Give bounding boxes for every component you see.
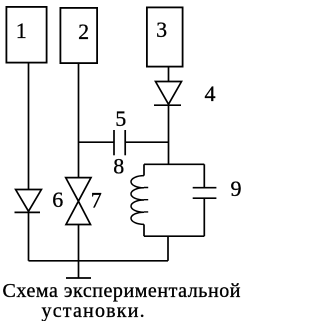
wire from block 1 down to diode 6 [28,63,30,190]
tank bottom wire to bus [167,236,169,261]
capacitor C5/C8 right plate [124,130,126,155]
svg-text:9: 9 [231,176,242,201]
block 1 [6,7,46,63]
diode V6 triangle [16,190,42,212]
capacitor C5/C8 left wire [79,141,115,143]
wire spark gap to ground [78,225,80,279]
block 2 [60,8,97,63]
caption line 1 [3,280,242,303]
ground bar [66,277,91,279]
caption line 2 [42,300,146,321]
svg-text:1: 1 [16,18,27,43]
svg-text:7: 7 [91,187,102,212]
svg-text:4: 4 [205,81,216,106]
spark gap F7 top triangle [66,178,91,202]
capacitor C9 top plate [193,187,217,189]
tank left edge lower stub [143,224,145,236]
svg-text:3: 3 [156,17,167,42]
capacitor C9 bottom plate [193,197,217,199]
capacitor C5/C8 right wire [125,141,168,143]
svg-text:6: 6 [52,187,63,212]
svg-text:2: 2 [78,19,89,44]
wire from block 3 down to diode 4 [168,67,170,82]
inductor L coil [131,176,144,225]
tank bottom edge wire [144,235,204,237]
tank right edge lower [203,198,205,236]
capacitor C5/C8 left plate [113,130,115,155]
inductor junction ticks [144,188,148,212]
tank right edge upper [203,164,205,187]
bottom bus wire [29,260,169,262]
diode V4 cathode bar [154,104,181,106]
diode V4 triangle [156,82,182,105]
wire diode 4 to tank top [168,105,170,164]
wire from block 2 down to spark gap 7 [78,63,80,178]
svg-text:8: 8 [113,154,124,179]
tank top edge wire [144,163,204,165]
block 3 [147,7,183,66]
wire diode 6 to bottom bus [28,212,30,260]
diode V6 cathode bar [15,211,41,213]
spark gap F7 bottom triangle [66,201,91,224]
tank left edge upper stub [143,164,145,175]
svg-text:5: 5 [115,106,126,131]
